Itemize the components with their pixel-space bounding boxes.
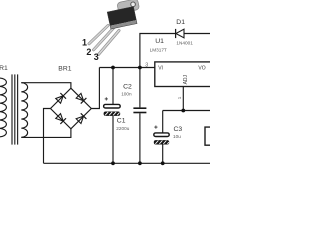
transformer TR1 core	[12, 74, 18, 144]
transformer TR1 primary coil	[0, 77, 6, 139]
wire D1 to right edge	[184, 33, 210, 35]
transformer TR1 secondary coil	[21, 83, 27, 138]
bridge diode upper-left	[55, 93, 66, 104]
bridge diode lower-right	[76, 113, 87, 124]
wire U1 ADJ pin down	[182, 87, 184, 111]
junction dot top rail C2/D1	[138, 66, 142, 70]
svg-text:VI: VI	[158, 66, 163, 72]
capacitor C3 plus sign	[154, 126, 157, 129]
capacitor C1 branch wire lower	[112, 116, 114, 163]
svg-text:3: 3	[145, 63, 148, 69]
capacitor C3 branch wire lower	[162, 145, 164, 164]
resistor R at right edge	[205, 127, 210, 145]
capacitor C3 branch wire upper	[162, 111, 164, 134]
svg-text:100n: 100n	[121, 91, 132, 96]
capacitor C2 branch wire upper	[139, 68, 141, 108]
svg-text:LM317T: LM317T	[150, 47, 167, 52]
wire secondary top to bridge AC1	[21, 83, 71, 89]
svg-text:VO: VO	[198, 66, 205, 72]
TO-220 package photo: leads	[89, 26, 119, 55]
bridge diode lower-left	[55, 113, 66, 124]
wire ADJ net horizontal	[163, 110, 210, 112]
svg-text:10u: 10u	[173, 134, 181, 139]
capacitor C3 positive plate	[154, 133, 169, 137]
svg-text:TR1: TR1	[0, 65, 8, 72]
wire top rail to U1 VI	[99, 67, 154, 69]
junction dot bottom rail C2	[138, 161, 142, 165]
bridge BR1 diamond outline	[51, 88, 92, 129]
svg-text:ADJ: ADJ	[183, 74, 189, 84]
junction dot bottom rail C1	[111, 161, 115, 165]
diode D1	[176, 29, 184, 38]
svg-text:C2: C2	[123, 84, 132, 91]
svg-text:C1: C1	[117, 118, 126, 125]
capacitor C1 negative plate hatched	[104, 112, 121, 116]
wire bridge DC- to bottom rail	[44, 109, 51, 164]
svg-text:1N4001: 1N4001	[176, 40, 193, 45]
svg-text:C3: C3	[174, 126, 183, 133]
wire secondary bottom to bridge AC2	[21, 129, 71, 138]
capacitor C2 plates	[133, 108, 146, 112]
svg-text:2: 2	[86, 47, 91, 57]
wire bottom rail	[44, 162, 211, 164]
capacitor C1 plus sign	[105, 97, 108, 100]
wire bridge DC+ to top rail	[91, 68, 99, 109]
junction dot bottom rail C3	[161, 161, 165, 165]
svg-text:BR1: BR1	[58, 65, 71, 72]
svg-text:U1: U1	[155, 38, 164, 45]
wire D1 branch from top rail	[140, 34, 176, 68]
op-amp U1 regulator box	[155, 62, 212, 87]
svg-text:D1: D1	[176, 19, 185, 26]
TO-220 package photo: body and tab	[106, 0, 143, 29]
svg-text:1: 1	[177, 96, 182, 99]
capacitor C3 negative plate hatched	[154, 140, 169, 144]
junction dot ADJ net	[181, 109, 185, 113]
capacitor C1 positive plate	[104, 104, 121, 108]
bridge diode upper-right	[76, 93, 87, 104]
capacitor C2 branch wire lower	[139, 113, 141, 163]
svg-text:3: 3	[94, 52, 99, 62]
capacitor C1 branch wire upper	[112, 68, 114, 105]
svg-text:2200u: 2200u	[116, 126, 129, 131]
junction dot top rail C1	[111, 66, 115, 70]
